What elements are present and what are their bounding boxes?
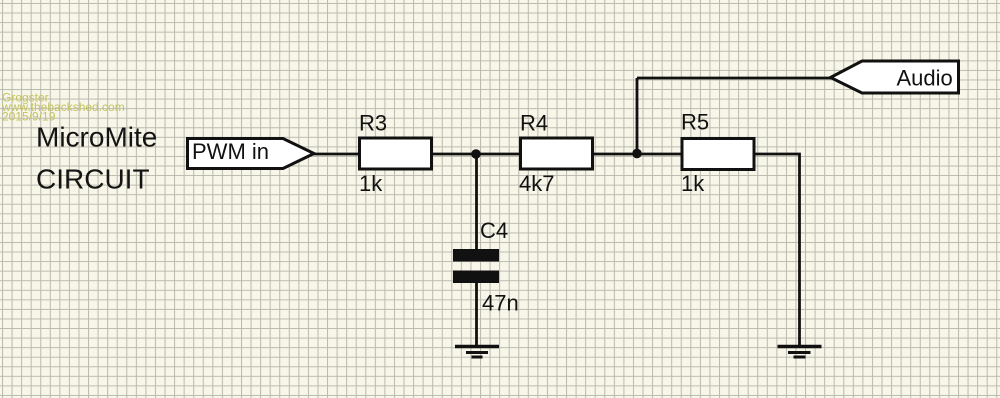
input flag PWM in bbox=[188, 139, 315, 169]
wire to Audio flag bbox=[637, 77, 831, 80]
ground 2 bbox=[778, 347, 822, 358]
wire junction 1 down to C4 bbox=[475, 154, 478, 250]
svg-text:R5: R5 bbox=[681, 110, 709, 135]
svg-text:PWM in: PWM in bbox=[192, 139, 269, 164]
node junction 1 bbox=[471, 149, 481, 159]
svg-text:R3: R3 bbox=[359, 111, 387, 136]
svg-text:4k7: 4k7 bbox=[519, 171, 554, 196]
capacitor C4 bbox=[453, 218, 519, 316]
wire junction 2 up to audio line bbox=[636, 78, 639, 154]
svg-text:47n: 47n bbox=[482, 291, 519, 316]
ground 1 bbox=[455, 347, 499, 358]
svg-text:MicroMite: MicroMite bbox=[36, 122, 157, 153]
wire R4 to R5 bbox=[594, 153, 682, 156]
svg-text:R4: R4 bbox=[520, 111, 548, 136]
author credit text bbox=[1, 90, 125, 123]
resistor R4 bbox=[519, 111, 593, 197]
output flag Audio bbox=[831, 61, 959, 93]
svg-text:Audio: Audio bbox=[897, 66, 953, 91]
svg-text:1k: 1k bbox=[681, 171, 705, 196]
resistor R3 bbox=[359, 111, 432, 197]
wire R3 to R4 bbox=[433, 153, 520, 156]
wire R5 to ground corner bbox=[756, 154, 800, 346]
svg-text:C4: C4 bbox=[480, 218, 508, 243]
resistor R5 bbox=[681, 110, 754, 197]
node junction 2 bbox=[632, 149, 642, 159]
svg-text:1k: 1k bbox=[359, 171, 383, 196]
svg-text:CIRCUIT: CIRCUIT bbox=[36, 164, 150, 195]
wire PWM tip to R3 bbox=[313, 153, 359, 156]
wire C4 to ground 1 bbox=[475, 283, 478, 346]
title text MicroMite CIRCUIT bbox=[36, 122, 157, 195]
